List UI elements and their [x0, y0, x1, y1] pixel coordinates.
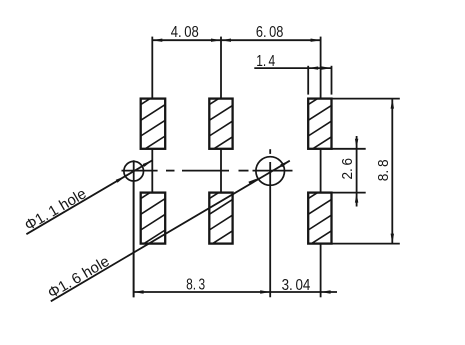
svg-text:Φ1. 1 hole: Φ1. 1 hole [22, 185, 90, 234]
svg-text:3. 04: 3. 04 [282, 277, 311, 294]
svg-text:6. 08: 6. 08 [256, 24, 284, 41]
svg-text:8. 3: 8. 3 [186, 277, 205, 294]
svg-text:1. 4: 1. 4 [256, 53, 275, 70]
svg-text:2. 6: 2. 6 [340, 158, 356, 180]
svg-text:8. 8: 8. 8 [376, 159, 392, 181]
svg-text:Φ1. 6 hole: Φ1. 6 hole [45, 253, 113, 302]
svg-text:4. 08: 4. 08 [171, 24, 199, 41]
